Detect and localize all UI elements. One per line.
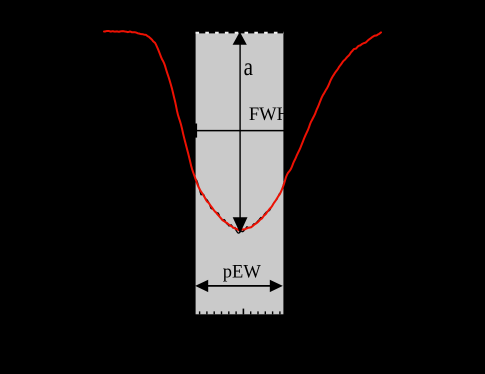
noisy spectrum curve (black) [104, 30, 381, 233]
pseudo-continuum dashed line [196, 32, 285, 34]
FWHM line left end cap [195, 124, 197, 138]
smoothed spectrum curve (red) [104, 31, 381, 230]
svg-text:pEW: pEW [223, 263, 262, 283]
gray pEW integration region [196, 33, 284, 314]
depth arrow head down [233, 217, 248, 233]
depth arrow head up [233, 32, 247, 45]
x-axis major tick [242, 309, 244, 315]
pEW arrow head left [195, 280, 208, 292]
pEW arrow head right [270, 280, 283, 292]
pEW arrow shaft [200, 285, 278, 287]
FWHM half-maximum line [196, 130, 284, 132]
x-axis minor ticks [200, 311, 280, 314]
svg-text:a: a [244, 54, 253, 81]
svg-text:FWHM: FWHM [249, 105, 307, 125]
depth arrow shaft [239, 42, 241, 219]
